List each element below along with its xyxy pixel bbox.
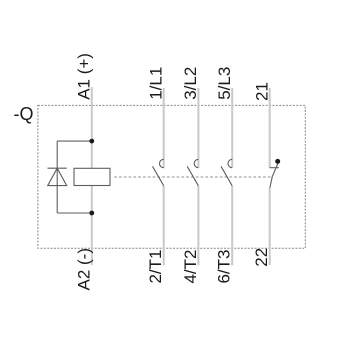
aux contact 21/22 blade: [270, 164, 278, 188]
wire A1 terminal: [91, 87, 93, 168]
svg-text:5/L3: 5/L3: [215, 67, 234, 100]
junction A1 branch: [89, 139, 94, 144]
branch wire to suppressor (top): [57, 140, 92, 142]
wire 5/L3 top: [231, 88, 233, 168]
aux contact 21/22 dot: [275, 159, 280, 164]
contactor outline -Q (dashed box): [38, 105, 305, 248]
wire A2 terminal: [91, 186, 93, 266]
contact 5/L3 fixed contact arc: [228, 159, 232, 167]
svg-text:22: 22: [252, 248, 271, 267]
svg-text:3/L2: 3/L2: [181, 67, 200, 100]
diode V1 cathode bar: [48, 167, 67, 169]
coil K1 (rectangle): [74, 168, 110, 185]
junction A2 branch: [89, 211, 94, 216]
contact 3/L2 blade: [187, 166, 198, 186]
diode V1 triangle: [48, 168, 67, 185]
contact 1/L1 blade: [153, 166, 164, 186]
svg-text:A1 (+): A1 (+): [75, 53, 94, 100]
wire 6/T3 bottom: [231, 186, 233, 265]
svg-text:6/T3: 6/T3: [215, 250, 234, 284]
contact 3/L2 fixed contact arc: [194, 159, 198, 167]
aux contact 21/22 fixed bar: [270, 167, 279, 169]
branch wire to suppressor (bottom): [57, 212, 92, 214]
mechanical linkage dashed line: [114, 176, 272, 178]
contact 1/L1 fixed contact arc: [160, 159, 164, 167]
svg-text:4/T2: 4/T2: [181, 250, 200, 284]
svg-text:2/T1: 2/T1: [146, 250, 165, 284]
wire 3/L2 top: [197, 88, 199, 168]
wire 1/L1 top: [163, 88, 165, 168]
wire 4/T2 bottom: [197, 186, 199, 265]
wire 2/T1 bottom: [163, 186, 165, 265]
svg-text:21: 21: [252, 82, 271, 101]
wire 21 top: [269, 88, 271, 168]
svg-text:A2 (-): A2 (-): [75, 248, 94, 291]
branch wire to suppressor (left vertical): [56, 141, 58, 213]
wire 22 bottom: [269, 188, 271, 266]
svg-text:-Q: -Q: [14, 104, 34, 124]
contact 5/L3 blade: [221, 166, 232, 186]
svg-text:1/L1: 1/L1: [146, 67, 165, 100]
